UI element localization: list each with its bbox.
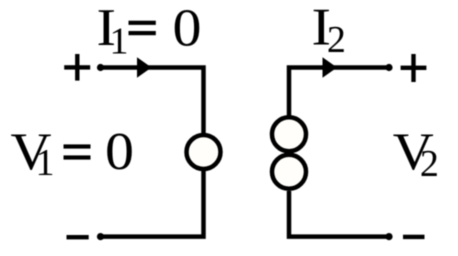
svg-text:2: 2 xyxy=(327,19,346,61)
label I2 (port 2 current) xyxy=(312,0,346,61)
wire: nullator bottom to port 1 negative xyxy=(101,171,204,237)
label I1 = 0 (port 1 current) xyxy=(97,0,202,63)
svg-text:0: 0 xyxy=(105,123,134,181)
svg-text:0: 0 xyxy=(173,0,202,58)
label V1 = 0 (port 1 voltage) xyxy=(11,123,135,184)
current arrow I1 xyxy=(137,57,152,78)
minus terminal port 2 xyxy=(403,235,425,239)
wire: port 2 top (from + node left then down to norator) xyxy=(289,68,389,117)
label V2 (port 2 voltage) xyxy=(393,123,439,185)
svg-text:1: 1 xyxy=(36,142,55,184)
plus terminal port 2 xyxy=(401,54,427,82)
node: port 2 positive terminal xyxy=(385,64,392,71)
norator (two overlapping circles) xyxy=(272,117,306,189)
plus terminal port 1 xyxy=(64,54,90,81)
node: port 1 negative terminal xyxy=(97,233,104,240)
wire: norator bottom to port 2 negative xyxy=(289,191,389,237)
svg-text:2: 2 xyxy=(420,143,439,185)
current arrow I2 xyxy=(323,57,338,78)
nullator xyxy=(187,135,221,169)
node: port 2 negative terminal xyxy=(385,233,392,240)
wire: port 1 top (horizontal then down to nullator) xyxy=(101,68,204,134)
minus terminal port 1 xyxy=(67,235,89,239)
svg-text:1: 1 xyxy=(110,21,129,63)
node: port 1 positive terminal xyxy=(97,64,104,71)
